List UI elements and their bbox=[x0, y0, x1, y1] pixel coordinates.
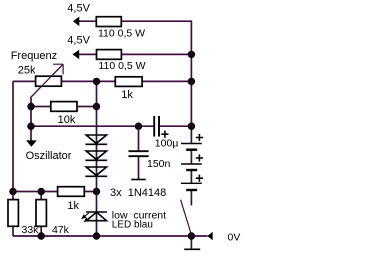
svg-text:Frequenz: Frequenz bbox=[11, 50, 57, 62]
svg-text:LED blau: LED blau bbox=[112, 220, 153, 231]
svg-text:25k: 25k bbox=[18, 65, 36, 77]
svg-text:33k: 33k bbox=[22, 224, 40, 236]
svg-text:Oszillator: Oszillator bbox=[26, 150, 72, 162]
svg-text:150n: 150n bbox=[147, 158, 171, 170]
svg-text:4,5V: 4,5V bbox=[67, 3, 90, 15]
svg-text:3x 1N4148: 3x 1N4148 bbox=[110, 187, 166, 199]
svg-text:0V: 0V bbox=[228, 232, 241, 244]
svg-text:100µ: 100µ bbox=[155, 138, 179, 150]
svg-text:1k: 1k bbox=[67, 200, 79, 212]
svg-text:110 0,5 W: 110 0,5 W bbox=[99, 60, 146, 72]
svg-text:110 0,5 W: 110 0,5 W bbox=[98, 28, 145, 40]
svg-text:1k: 1k bbox=[121, 89, 133, 101]
svg-text:47k: 47k bbox=[52, 224, 70, 236]
svg-text:10k: 10k bbox=[58, 114, 76, 126]
svg-text:4,5V: 4,5V bbox=[67, 35, 90, 47]
